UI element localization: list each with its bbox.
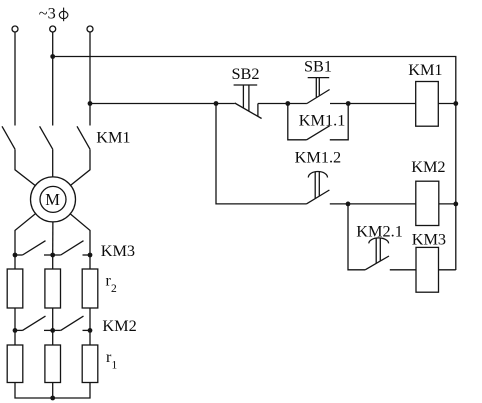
wire r1 to star bus phase C <box>53 383 90 399</box>
contact KM1.2 delay arc <box>308 172 327 178</box>
terminal L2 <box>50 26 56 32</box>
pushbutton SB2 cap bar <box>234 84 258 86</box>
node KM2 row phase B <box>50 328 55 333</box>
coil KM1 <box>416 82 439 127</box>
wire KM2 row into r1 phase A <box>14 330 16 345</box>
svg-text:2: 2 <box>111 283 117 295</box>
terminal L1 <box>12 26 18 32</box>
wire KM1.1 branch right side <box>330 104 348 140</box>
wire SB1 left lead <box>288 103 307 105</box>
wire phase C drop <box>89 32 91 126</box>
wire SB2 to KM1.1 node <box>258 103 288 105</box>
wire phase C to motor <box>53 149 90 199</box>
node star point <box>50 396 55 401</box>
pushbutton SB1 blade <box>307 90 330 104</box>
svg-text:~3: ~3 <box>39 4 56 23</box>
svg-text:KM1: KM1 <box>408 60 442 79</box>
wire phase B to motor <box>52 149 54 199</box>
wire phase C into r2 <box>89 255 91 269</box>
wire rotor phase B <box>52 199 54 255</box>
wire second control rail <box>90 103 216 105</box>
node KM3 row phase A <box>13 253 18 258</box>
pushbutton SB2 blade <box>235 103 262 119</box>
wire phase B drop <box>52 32 54 126</box>
resistor r2 phase C <box>82 269 98 308</box>
contact KM2.1 blade <box>365 256 389 270</box>
svg-text:KM1.1: KM1.1 <box>299 111 346 130</box>
wire KM2 coil feed <box>348 203 416 205</box>
wire KM2.1 branch drop <box>348 204 365 270</box>
node KM1.1 right junction <box>346 101 351 106</box>
svg-text:KM3: KM3 <box>101 241 135 260</box>
contactor KM1 main contact phase B <box>40 126 53 149</box>
contactor KM3 bridge contact B-C <box>53 241 90 255</box>
wire phase A to motor <box>15 149 53 199</box>
node KM3 row phase B <box>50 253 55 258</box>
pushbutton SB2 stem <box>243 85 249 111</box>
svg-text:M: M <box>45 190 60 209</box>
contactor KM2 bridge contact A-B <box>15 316 53 330</box>
terminal L3 <box>87 26 93 32</box>
wire r1 to star bus phase A <box>15 383 53 399</box>
wire phase B into r2 <box>52 255 54 269</box>
contactor KM2 bridge contact B-C <box>53 316 90 330</box>
pushbutton SB2 right terminal tick <box>257 104 259 117</box>
node SB2 branch junction <box>214 101 219 106</box>
node KM2 rail junction <box>453 202 458 207</box>
wire SB2 left lead <box>216 103 235 105</box>
contact KM2.1 delay arc <box>369 238 389 244</box>
wire KM2 row into r1 phase B <box>52 330 54 345</box>
node control rail second junction <box>88 101 93 106</box>
pushbutton SB1 stem <box>316 78 319 98</box>
resistor r1 phase A <box>7 345 23 383</box>
svg-text:KM2.1: KM2.1 <box>356 221 403 240</box>
svg-text:KM1: KM1 <box>96 127 130 146</box>
svg-text:1: 1 <box>112 359 118 371</box>
svg-text:SB1: SB1 <box>304 57 332 76</box>
wire r2 to KM2 row phase C <box>89 308 91 330</box>
node KM3 row phase C <box>88 253 93 258</box>
svg-text:KM2: KM2 <box>102 316 136 335</box>
node KM2 branch junction <box>346 202 351 207</box>
svg-text:KM3: KM3 <box>412 230 446 249</box>
wire SB1 right lead <box>330 103 348 105</box>
wire top control rail <box>53 57 456 271</box>
contact KM1.2 stem <box>315 172 319 199</box>
coil KM2 <box>416 181 439 225</box>
wire KM1 coil to rail <box>438 103 456 105</box>
contactor KM1 main contact phase C <box>77 126 90 149</box>
wire KM1.2 right lead <box>330 203 348 205</box>
resistor r2 phase B <box>45 269 61 308</box>
wire phase A drop <box>14 32 16 126</box>
contactor KM3 bridge contact A-B <box>15 241 53 255</box>
resistor r1 phase B <box>45 345 61 383</box>
wire KM2.1 right lead <box>390 269 416 271</box>
wire KM3 coil to rail <box>439 269 456 271</box>
node KM1.1 left junction <box>285 101 290 106</box>
resistor r1 phase C <box>82 345 98 383</box>
contactor KM1 main contact phase A <box>2 126 15 149</box>
contact KM1.1 blade <box>307 126 330 140</box>
motor M inner circle <box>40 186 66 212</box>
svg-text:KM1.2: KM1.2 <box>295 148 342 167</box>
wire KM1.1 branch left drop <box>288 104 307 140</box>
resistor r2 phase A <box>7 269 23 308</box>
contact KM1.2 blade <box>306 190 329 204</box>
wire rotor phase A <box>15 199 53 255</box>
wire KM2 coil to rail <box>439 203 456 205</box>
pushbutton SB1 cap bar <box>308 77 330 79</box>
svg-text:SB2: SB2 <box>232 64 260 83</box>
wire rotor phase C <box>53 199 90 255</box>
node control rail top junction <box>50 54 55 59</box>
contact KM2.1 stem <box>376 238 380 263</box>
coil KM3 <box>416 247 439 292</box>
node KM2 row phase C <box>88 328 93 333</box>
wire r2 to KM2 row phase A <box>14 308 16 330</box>
wire phase A into r2 <box>14 255 16 269</box>
wire r2 to KM2 row phase B <box>52 308 54 330</box>
svg-text:KM2: KM2 <box>411 157 445 176</box>
node KM2 row phase A <box>13 328 18 333</box>
motor M outer circle <box>31 177 76 222</box>
wire KM1 coil feed <box>348 103 416 105</box>
node KM1 rail junction <box>453 101 458 106</box>
wire KM1.2 branch drop <box>216 104 306 204</box>
wire KM2 row into r1 phase C <box>89 330 91 345</box>
wire r1 to star bus phase B <box>52 383 54 399</box>
